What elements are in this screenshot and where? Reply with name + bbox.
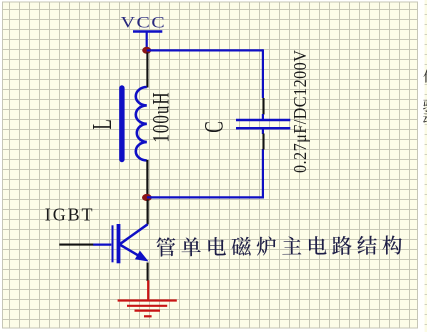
svg-text:IGBT: IGBT (45, 205, 95, 225)
clipped text fragment 动 (right edge) (423, 111, 427, 124)
clipped text fragment 驱 (right edge) (423, 99, 427, 112)
capacitor C plates (236, 120, 290, 128)
inductor L1 core bar (119, 88, 124, 160)
wire emitter to ground (147, 263, 149, 282)
wire gate (black) (59, 244, 93, 246)
ground symbol stem (147, 280, 149, 300)
value 100uH (rotated) (149, 91, 174, 142)
transistor Q1 IGBT gate pin (93, 244, 111, 246)
value 0.27uF/DC1200V (rotated) (290, 49, 310, 173)
wire VCC stem (146, 32, 148, 49)
wire capacitor bottom vertical (262, 149, 264, 199)
label IGBT (45, 205, 95, 225)
junction node top (VCC rail) (142, 47, 151, 54)
wire inductor to bottom junction (146, 160, 148, 195)
transistor Q1 emitter stroke with arrow (120, 245, 149, 262)
transistor Q1 IGBT gate bar (112, 225, 114, 262)
transistor Q1 IGBT body bar (117, 224, 121, 263)
transistor Q1 collector stroke (120, 224, 148, 244)
net label VCC (121, 13, 167, 31)
power symbol VCC bar (133, 30, 162, 32)
svg-text:L: L (87, 119, 117, 129)
label L (rotated) (87, 119, 117, 129)
label C (rotated) (199, 121, 229, 133)
inductor L1 coil (136, 87, 147, 161)
wire junction to collector (147, 200, 149, 225)
ground symbol bars (118, 301, 177, 317)
wire capacitor top vertical (262, 49, 264, 98)
capacitor C pin top (black) (262, 98, 264, 115)
capacitor C pin stub bottom blue (262, 130, 264, 135)
clipped text fragment 仿 (right edge) (423, 70, 427, 83)
svg-text:VCC: VCC (121, 13, 167, 31)
wire top horizontal to capacitor (147, 49, 263, 51)
svg-text:C: C (199, 121, 229, 133)
svg-text:100uH: 100uH (149, 91, 174, 142)
junction node bottom (142, 194, 152, 201)
svg-text:0.27μF/DC1200V: 0.27μF/DC1200V (290, 49, 310, 173)
wire VCC junction to inductor (146, 53, 148, 88)
wire bottom horizontal to capacitor (147, 196, 264, 198)
capacitor C pin stub top blue (262, 114, 264, 119)
caption text 管单电磁炉主电路结构 (156, 235, 402, 256)
capacitor C pin bottom (black) (262, 134, 264, 150)
